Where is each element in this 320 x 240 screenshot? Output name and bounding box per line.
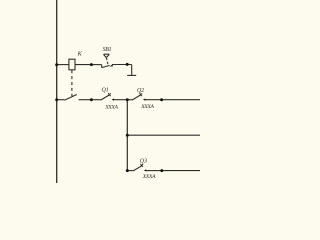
wire: rung2 bus to contact K bbox=[57, 99, 65, 101]
node: rung1 right junction bbox=[126, 63, 129, 66]
node: bus1/rung1 junction bbox=[55, 63, 58, 66]
svg-text:K: K bbox=[77, 51, 83, 58]
svg-text:XXXA: XXXA bbox=[104, 104, 118, 110]
svg-text:XXXA: XXXA bbox=[140, 104, 154, 110]
circuit breaker Q3 bbox=[127, 164, 162, 172]
wire: rung3 to right edge bbox=[162, 170, 200, 172]
wire: rung2 to right edge bbox=[162, 99, 200, 101]
svg-text:SB1: SB1 bbox=[103, 47, 112, 53]
wire: junction to SB1 left contact bbox=[91, 64, 101, 66]
node: Q1/Q2 bus2 junction bbox=[126, 98, 129, 101]
wire: contact K to junction bbox=[79, 99, 92, 101]
wire: middle line to right edge bbox=[127, 134, 200, 136]
pushbutton SB1 bbox=[102, 54, 113, 67]
relay contact K bbox=[64, 95, 76, 101]
node: contactK/Q1 junction bbox=[90, 98, 93, 101]
svg-text:Q2: Q2 bbox=[137, 88, 144, 94]
svg-text:XXXA: XXXA bbox=[142, 174, 156, 180]
node: bus1/rung2 junction bbox=[55, 98, 58, 101]
node: rung2 right junction bbox=[160, 98, 163, 101]
mechanical link (dashed) coil K to contact K bbox=[71, 70, 73, 96]
svg-text:Q3: Q3 bbox=[140, 159, 147, 165]
circuit breaker Q1 bbox=[91, 93, 127, 101]
wire: SB1 right contact to corner bbox=[112, 64, 132, 66]
node: coil/SB1 junction bbox=[90, 63, 93, 66]
svg-text:Q1: Q1 bbox=[102, 87, 109, 93]
node: bus2/midline junction bbox=[126, 134, 129, 137]
ground terminal bar bbox=[127, 74, 136, 76]
wire: second vertical bus bbox=[126, 100, 128, 171]
node: bus2/rung3 junction bbox=[126, 169, 129, 172]
relay coil K bbox=[69, 59, 75, 70]
node: rung3 right junction bbox=[160, 169, 163, 172]
wire: rung1 bus to coil K bbox=[57, 64, 69, 66]
wire: coil K to junction bbox=[75, 64, 91, 66]
wire: left vertical bus bbox=[56, 0, 58, 183]
circuit breaker Q2 bbox=[127, 93, 161, 101]
wire: down to ground bbox=[131, 65, 133, 76]
